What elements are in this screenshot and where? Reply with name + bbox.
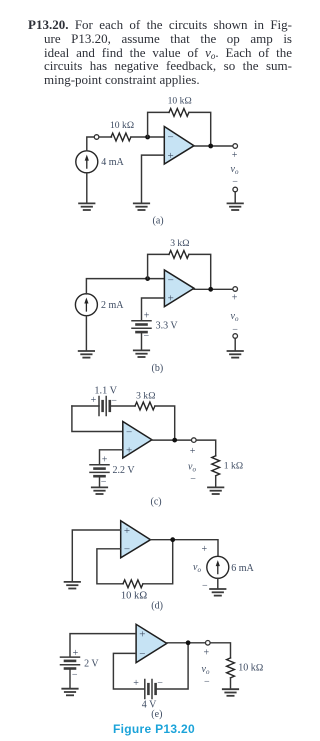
svg-text:2 mA: 2 mA	[101, 300, 124, 311]
wire feedback right	[189, 254, 211, 289]
wire feedback right up	[156, 643, 189, 689]
svg-text:+: +	[168, 150, 174, 162]
wire output	[152, 439, 191, 441]
svg-text:−: −	[168, 132, 174, 144]
svg-text:−: −	[126, 426, 132, 438]
svg-text:+: +	[91, 395, 97, 406]
wire inverting to feedback	[97, 549, 123, 584]
wire battery to ground	[69, 669, 71, 689]
op-amp U1	[164, 127, 194, 165]
wire left vertical to inverting input	[72, 406, 123, 432]
wire source top	[87, 137, 94, 151]
ground at output	[228, 351, 243, 358]
op-amp U5	[136, 624, 167, 662]
svg-text:1.1 V: 1.1 V	[94, 385, 117, 396]
ground left	[65, 582, 80, 589]
svg-text:10 kΩ: 10 kΩ	[168, 96, 192, 107]
ground at load	[208, 487, 223, 494]
resistor R5 1 k load	[212, 456, 220, 476]
wire battery to ground	[99, 476, 101, 487]
ground at source	[79, 203, 94, 210]
svg-text:(b): (b)	[152, 363, 164, 374]
svg-text:+: +	[202, 544, 208, 555]
svg-text:−: −	[111, 395, 117, 406]
wire resistor to op-amp inverting input	[131, 136, 164, 138]
junction dot	[145, 135, 150, 140]
svg-text:(d): (d)	[151, 601, 163, 612]
wire load to ground	[230, 678, 232, 689]
ground at battery	[92, 487, 107, 494]
wire output	[194, 145, 233, 147]
svg-text:vo: vo	[231, 164, 239, 176]
svg-text:−: −	[202, 581, 208, 592]
wire terminal to ground	[234, 192, 236, 203]
output terminal	[192, 438, 197, 443]
current source I2 2 mA	[75, 294, 97, 316]
svg-text:10 kΩ: 10 kΩ	[121, 590, 147, 601]
svg-text:+: +	[73, 648, 79, 659]
svg-text:1 kΩ: 1 kΩ	[224, 461, 243, 472]
wire noninverting to battery	[142, 298, 165, 321]
battery B5 4 V feedback	[145, 680, 156, 699]
figure caption	[113, 722, 195, 736]
wire inverting to feedback battery	[113, 653, 144, 689]
svg-text:vo: vo	[193, 562, 201, 574]
svg-text:−: −	[190, 474, 196, 485]
wire noninverting to battery	[70, 634, 136, 657]
wire source bottom	[86, 173, 88, 203]
wire source bottom	[85, 316, 87, 351]
terminal node (open circle)	[94, 135, 99, 140]
svg-text:+: +	[232, 293, 238, 304]
resistor R4 3 k	[135, 402, 155, 410]
current source I1 4 mA	[76, 151, 98, 173]
svg-text:−: −	[168, 274, 174, 286]
wire feedback right up	[143, 540, 173, 584]
wire feedback left	[148, 254, 169, 278]
junction dot output	[208, 144, 213, 149]
svg-text:2.2 V: 2.2 V	[113, 465, 136, 476]
svg-text:−: −	[232, 177, 238, 188]
svg-text:2 V: 2 V	[84, 659, 99, 670]
svg-text:10 kΩ: 10 kΩ	[110, 120, 134, 131]
svg-text:+: +	[232, 150, 238, 161]
junction dot output	[170, 537, 175, 542]
ground at battery	[62, 689, 77, 696]
ground at battery	[134, 350, 149, 357]
svg-text:+: +	[133, 678, 139, 689]
wire output	[151, 540, 219, 557]
svg-text:(a): (a)	[153, 216, 164, 227]
wire terminal to ground	[234, 338, 236, 350]
resistor R7 10 k load	[227, 658, 235, 678]
wire to resistor	[99, 136, 112, 138]
op-amp U2	[164, 270, 194, 307]
wire feedback right vertical	[189, 112, 211, 146]
ground at op-amp plus input	[134, 203, 149, 210]
svg-text:+: +	[168, 293, 174, 305]
wire battery to resistor	[110, 405, 135, 407]
output terminal	[206, 641, 211, 646]
resistor R2 10 k feedback	[169, 109, 189, 117]
wire load to ground	[215, 476, 217, 487]
resistor R6 10 k feedback	[123, 580, 143, 588]
wire battery to ground	[141, 332, 143, 350]
svg-text:3 kΩ: 3 kΩ	[170, 238, 189, 249]
svg-text:−: −	[204, 677, 210, 688]
junction dot output	[208, 287, 213, 292]
battery B1 3.3 V	[132, 321, 151, 332]
svg-text:−: −	[157, 678, 163, 689]
junction dot input	[145, 276, 150, 281]
output terminal top	[233, 287, 238, 292]
svg-text:−: −	[101, 476, 107, 487]
svg-text:vo: vo	[231, 311, 239, 323]
resistor R1 10 k	[111, 133, 131, 141]
svg-text:+: +	[126, 445, 132, 457]
svg-text:vo: vo	[202, 664, 210, 676]
ground at source	[210, 589, 225, 596]
svg-text:6 mA: 6 mA	[231, 563, 254, 574]
output terminal top	[233, 144, 238, 149]
wire top left	[72, 405, 99, 407]
svg-text:3 kΩ: 3 kΩ	[136, 390, 155, 401]
battery B3 2.2 V	[90, 465, 109, 476]
svg-text:+: +	[190, 446, 196, 457]
output terminal bottom	[233, 334, 238, 339]
op-amp U3	[123, 422, 152, 459]
svg-text:−: −	[139, 648, 145, 660]
wire source top to op-amp	[86, 279, 164, 294]
svg-text:−: −	[124, 544, 130, 556]
wire noninverting input to ground	[142, 155, 165, 203]
battery B4 2 V	[61, 657, 80, 668]
output terminal bottom	[233, 187, 238, 192]
ground at source	[79, 351, 94, 358]
problem statement paragraph	[28, 18, 292, 87]
svg-text:−: −	[72, 670, 78, 681]
ground at output terminal	[228, 203, 243, 210]
svg-text:(c): (c)	[151, 496, 162, 507]
svg-text:4 mA: 4 mA	[101, 157, 124, 168]
wire resistor to right corner and down	[155, 406, 175, 440]
junction dot output	[186, 640, 191, 645]
wire output	[167, 643, 231, 658]
wire source to ground	[217, 578, 219, 588]
battery B2 1.1 V	[99, 397, 110, 416]
svg-text:3.3 V: 3.3 V	[156, 321, 179, 332]
svg-text:−: −	[144, 331, 150, 342]
svg-text:+: +	[144, 310, 150, 321]
resistor R3 3 k feedback	[169, 251, 189, 259]
wire feedback left vertical	[148, 112, 169, 137]
wire noninverting to ground	[72, 530, 120, 582]
svg-text:+: +	[102, 454, 108, 465]
wire noninverting to battery	[100, 450, 123, 465]
junction dot output	[172, 438, 177, 443]
wire terminal to load	[196, 440, 215, 456]
svg-text:+: +	[139, 628, 145, 640]
svg-text:+: +	[204, 647, 210, 658]
svg-text:10 kΩ: 10 kΩ	[238, 662, 263, 673]
current source I3 6 mA	[207, 556, 229, 578]
op-amp U4	[121, 521, 151, 558]
ground at load	[223, 689, 238, 696]
svg-text:+: +	[124, 525, 130, 537]
svg-text:vo: vo	[188, 462, 196, 474]
svg-text:(e): (e)	[151, 709, 162, 720]
wire output	[194, 288, 233, 290]
